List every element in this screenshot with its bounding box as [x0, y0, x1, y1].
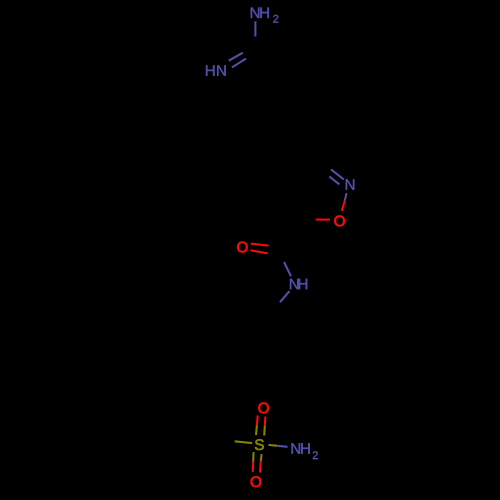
atom label NH2 (sulfonamide nitrogen)	[291, 443, 317, 459]
bond S-N (N half)	[277, 446, 287, 447]
atom label O (sulfonyl bottom)	[251, 476, 261, 487]
bond C3=N double, line 1 (N half)	[331, 169, 344, 179]
bond C=N imine double, line 2 (N half)	[232, 59, 246, 68]
atom label NH2 (amidine nitrogen)	[251, 8, 279, 23]
bond N-C amidine (N half)	[254, 21, 256, 36]
atom label HN (imine nitrogen)	[206, 65, 226, 75]
bond C=N imine double, line 1 (N half)	[229, 53, 243, 61]
bond S=O top double, line 1 (O half)	[256, 416, 259, 426]
bond N-O (N half)	[345, 193, 347, 201]
bond S=O top double, line 2 (O half)	[264, 417, 267, 426]
bond N-CH2 (N half)	[280, 291, 289, 302]
sulfonamide group	[235, 403, 318, 488]
bond N-O (O half)	[342, 201, 345, 211]
bond S=O bottom double, line 2 (S half)	[260, 454, 263, 461]
bond S=O top double, line 1 (S half)	[255, 426, 258, 436]
bond S=O bottom double, line 1 (O half)	[252, 462, 255, 472]
atom label S (sulfonyl sulfur)	[255, 439, 264, 450]
bond C3=N double, line 2 (N half)	[329, 176, 339, 184]
bond S=O bottom double, line 2 (O half)	[259, 461, 262, 473]
bond O1-C5 (O half)	[316, 219, 330, 221]
bond S=O top double, line 2 (S half)	[263, 426, 266, 436]
atom label N (isoxazole)	[346, 179, 354, 189]
isoxazole ring	[316, 169, 355, 226]
atom label O (isoxazole)	[334, 216, 344, 227]
bond C=O carbonyl double, line 2 (O half)	[250, 250, 267, 253]
bond S-N (S half)	[269, 444, 278, 447]
bond S-CH3 (S half)	[235, 441, 253, 443]
bond S=O bottom double, line 1 (S half)	[252, 452, 254, 462]
carboxamide group	[237, 242, 307, 303]
bond C=O carbonyl double, line 1 (O half)	[251, 244, 269, 246]
amidine group	[206, 8, 278, 76]
atom label NH (amide nitrogen)	[290, 279, 307, 289]
bond C-N amide (N half)	[284, 262, 291, 276]
atom label O (sulfonyl top)	[258, 403, 268, 414]
atom label O (carbonyl)	[237, 242, 247, 253]
